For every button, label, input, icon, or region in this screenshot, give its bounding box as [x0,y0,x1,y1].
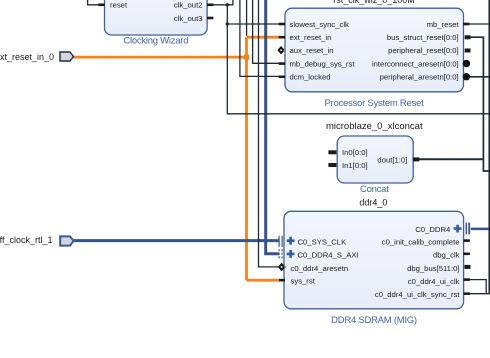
svg-text:mb_reset: mb_reset [427,20,460,29]
svg-text:bus_struct_reset[0:0]: bus_struct_reset[0:0] [387,33,459,42]
svg-text:dbg_clk: dbg_clk [433,251,460,260]
svg-text:dbg_bus[511:0]: dbg_bus[511:0] [407,264,459,273]
svg-text:C0_SYS_CLK: C0_SYS_CLK [298,237,348,246]
svg-text:C0_DDR4: C0_DDR4 [415,225,451,234]
svg-text:Processor System Reset: Processor System Reset [324,98,424,109]
svg-text:xt_reset_in_0: xt_reset_in_0 [0,52,54,62]
svg-text:clk_out3: clk_out3 [174,14,203,23]
svg-text:reset: reset [110,1,128,10]
svg-text:Concat: Concat [360,184,389,195]
svg-text:peripheral_reset[0:0]: peripheral_reset[0:0] [388,46,459,55]
svg-text:In0[0:0]: In0[0:0] [342,148,368,157]
svg-text:interconnect_aresetn[0:0]: interconnect_aresetn[0:0] [372,59,459,68]
svg-text:dout[1:0]: dout[1:0] [377,155,407,164]
svg-text:ff_clock_rtl_1: ff_clock_rtl_1 [0,235,53,245]
svg-text:DDR4 SDRAM (MIG): DDR4 SDRAM (MIG) [331,315,417,326]
svg-text:c0_init_calib_complete: c0_init_calib_complete [382,237,460,246]
svg-text:sys_rst: sys_rst [291,277,316,286]
svg-text:c0_ddr4_ui_clk: c0_ddr4_ui_clk [408,277,460,286]
svg-text:C0_DDR4_S_AXI: C0_DDR4_S_AXI [298,251,359,260]
svg-text:peripheral_aresetn[0:0]: peripheral_aresetn[0:0] [380,73,459,82]
svg-text:c0_ddr4_ui_clk_sync_rst: c0_ddr4_ui_clk_sync_rst [375,290,460,299]
svg-text:In1[0:0]: In1[0:0] [342,161,368,170]
svg-text:dcm_locked: dcm_locked [290,73,331,82]
svg-text:slowest_sync_clk: slowest_sync_clk [290,20,350,29]
svg-text:rst_clk_wiz_0_100M: rst_clk_wiz_0_100M [333,0,415,5]
svg-text:ddr4_0: ddr4_0 [359,198,387,208]
svg-text:aux_reset_in: aux_reset_in [290,46,334,55]
svg-text:c0_ddr4_aresetn: c0_ddr4_aresetn [291,264,349,273]
svg-text:clk_out2: clk_out2 [174,1,203,10]
svg-text:microblaze_0_xlconcat: microblaze_0_xlconcat [326,121,423,132]
svg-text:Clocking Wizard: Clocking Wizard [123,36,188,47]
svg-text:ext_reset_in: ext_reset_in [290,33,332,42]
svg-text:mb_debug_sys_rst: mb_debug_sys_rst [290,59,356,68]
